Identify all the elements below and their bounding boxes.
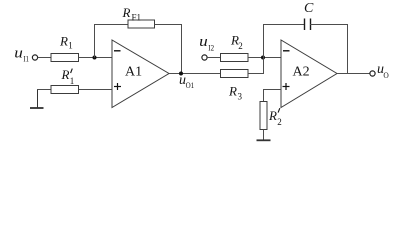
- wire capacitor to output column: [310, 24, 348, 26]
- svg-text:A2: A2: [293, 65, 310, 80]
- wire ground to R1': [37, 89, 51, 91]
- label R1': [61, 67, 75, 86]
- svg-text:R: R: [122, 5, 131, 20]
- label u_I1: [14, 45, 29, 63]
- wire R3 up to inverting junction: [263, 58, 265, 75]
- wire junction up to capacitor: [263, 24, 265, 58]
- svg-text:R: R: [228, 84, 237, 99]
- ground (stage 2): [257, 139, 271, 141]
- resistor R2: [221, 54, 249, 62]
- wire feedback down to output node: [181, 24, 183, 74]
- svg-text:2: 2: [238, 41, 243, 51]
- wire R3 to junction column: [248, 73, 263, 75]
- wire RF1 to output column: [155, 24, 183, 26]
- prime mark of R2': [278, 108, 280, 112]
- svg-text:3: 3: [238, 92, 243, 102]
- svg-text:R: R: [61, 67, 70, 82]
- svg-text:1: 1: [70, 76, 75, 86]
- svg-text:R: R: [268, 108, 277, 123]
- label RF1: [122, 5, 142, 23]
- wire top to capacitor C: [263, 24, 305, 26]
- wire R2' to ground: [263, 130, 265, 140]
- input terminal u_I1: [32, 55, 37, 60]
- svg-text:I1: I1: [23, 53, 29, 63]
- wire R1' to A1 non-inverting input: [79, 89, 113, 91]
- output terminal u_O: [370, 71, 375, 76]
- label R1: [59, 34, 73, 51]
- wire junction up to feedback: [94, 24, 96, 58]
- wire top left to RF1: [94, 24, 128, 26]
- svg-text:C: C: [304, 1, 314, 16]
- svg-text:F1: F1: [132, 13, 142, 23]
- prime mark of R1': [71, 69, 73, 73]
- wire terminal2 to R2: [207, 57, 220, 59]
- svg-text:A1: A1: [125, 65, 142, 80]
- wire R1 to A1 inverting input: [79, 57, 113, 59]
- A1 plus sign: [114, 83, 121, 90]
- label R3: [228, 84, 243, 102]
- A2 minus sign: [283, 50, 290, 52]
- op-amp A1: [112, 40, 169, 108]
- label R2: [230, 33, 243, 51]
- label u_I2: [199, 34, 214, 52]
- resistor R1': [51, 86, 79, 94]
- resistor R1: [51, 54, 79, 62]
- svg-text:O1: O1: [186, 80, 195, 90]
- resistor RF1: [128, 20, 155, 28]
- label u_O: [377, 62, 389, 80]
- junction node at inverting input of A2: [261, 56, 265, 60]
- svg-text:O: O: [383, 70, 388, 80]
- wire A1 output: [169, 73, 221, 75]
- svg-text:u: u: [199, 34, 208, 50]
- A2 plus sign: [283, 83, 290, 90]
- svg-text:R: R: [59, 34, 68, 49]
- svg-text:1: 1: [68, 41, 73, 51]
- junction node u_O1: [179, 72, 183, 76]
- input terminal u_I2: [202, 55, 207, 60]
- wire R2 to A2 inverting input: [248, 57, 281, 59]
- label u_O1: [179, 73, 194, 90]
- ground (stage 1): [30, 90, 44, 109]
- resistor R2' (vertical): [260, 102, 267, 130]
- junction node at inverting input of A1: [93, 56, 97, 60]
- resistor R3: [221, 70, 249, 78]
- capacitor C: [305, 19, 311, 31]
- svg-text:2: 2: [277, 117, 282, 127]
- wire terminal1 to R1: [38, 57, 51, 59]
- op-amp A2: [281, 40, 337, 108]
- wire non-inverting down to R2': [263, 89, 265, 102]
- wire A2 output: [337, 73, 370, 75]
- A1 minus sign: [114, 50, 121, 52]
- svg-text:I2: I2: [208, 42, 214, 52]
- label R2': [268, 108, 282, 127]
- wire capacitor down to output: [347, 24, 349, 74]
- svg-text:u: u: [14, 45, 23, 61]
- wire A2 non-inverting input: [263, 89, 281, 91]
